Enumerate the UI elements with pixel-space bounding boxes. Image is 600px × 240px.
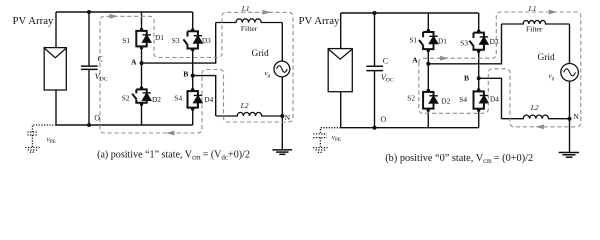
svg-text:A: A — [412, 56, 418, 65]
svg-text:O: O — [381, 115, 387, 124]
svg-text:D4: D4 — [490, 95, 499, 104]
node DC+ junction (b) — [373, 11, 377, 15]
wire node A to filter column (a) — [142, 23, 216, 64]
wire bottom DC rail (b) — [341, 127, 479, 129]
svg-text:D4: D4 — [204, 95, 213, 104]
wire grid to node N (b) — [569, 81, 571, 119]
wire node B to filter column (a) — [193, 76, 216, 116]
node DC+ junction (a) — [87, 10, 91, 14]
wire S3 to node B (b) — [478, 50, 480, 79]
svg-text:D2: D2 — [152, 95, 161, 104]
switch S3 open (a) — [183, 31, 198, 48]
svg-text:S1: S1 — [410, 35, 418, 44]
wire PV negative lead (b) — [340, 92, 342, 128]
svg-text:(b) positive “0” state, Vcm =: (b) positive “0” state, Vcm = (0+0)/2 — [385, 153, 533, 165]
node S2 source junction (b) — [427, 108, 430, 111]
diode D1 (b) — [429, 36, 437, 43]
svg-text:L1: L1 — [241, 4, 250, 13]
wire S2 to bottom rail (b) — [427, 109, 429, 128]
svg-text:VDC: VDC — [381, 73, 394, 84]
node S3 drain junction (a) — [191, 28, 194, 31]
svg-text:S3: S3 — [172, 36, 180, 45]
wire S2 to bottom rail (a) — [141, 103, 143, 125]
diode D3 (b) — [480, 37, 488, 44]
current arrow above L1 (a) — [263, 10, 272, 15]
node S1 drain junction (a) — [140, 28, 143, 31]
svg-text:PV Array: PV Array — [299, 15, 340, 27]
svg-text:VDC: VDC — [95, 72, 108, 83]
wire S1 to node A (a) — [141, 46, 143, 63]
switch S1 open (b) — [419, 32, 434, 49]
parasitic capacitor vPE dotted (b) — [313, 128, 341, 153]
switch S1 closed (a) — [136, 31, 146, 47]
inductor L1 (a) — [216, 19, 283, 23]
svg-text:S1: S1 — [122, 36, 130, 45]
ground symbol at N (a) — [272, 150, 292, 154]
svg-text:Grid: Grid — [252, 49, 269, 59]
wire L1 to grid (a) — [281, 23, 283, 62]
node S3 drain junction (b) — [477, 30, 480, 33]
node S2 drain junction (b) — [427, 89, 430, 92]
wire PV positive lead (a) — [55, 12, 57, 48]
switch S4 closed (a) — [188, 91, 198, 108]
node N (b) — [568, 117, 572, 121]
wire S4 to bottom rail (b) — [478, 109, 480, 128]
inductor L1 (b) — [502, 20, 570, 24]
svg-text:N: N — [573, 112, 579, 121]
svg-text:Filter: Filter — [241, 24, 258, 33]
diode D2 (a) — [143, 93, 151, 100]
diode D4 (b) — [480, 96, 488, 103]
PV array source (a) — [44, 48, 66, 90]
svg-text:vg: vg — [264, 70, 270, 80]
wire PV negative lead (a) — [55, 90, 57, 125]
diode D2 (b) — [429, 96, 437, 103]
svg-text:S3: S3 — [460, 38, 468, 47]
node B (a) — [191, 74, 195, 78]
current arrow above node A wire (b) — [440, 56, 449, 61]
wire node N to ground (b) — [569, 119, 571, 153]
wire PV positive lead (b) — [340, 13, 342, 49]
wire right leg top (a) — [192, 12, 194, 31]
switch S4 closed (b) — [474, 91, 484, 108]
node S2 drain junction (a) — [140, 86, 143, 89]
svg-text:(a) positive “1” state, Vcm =: (a) positive “1” state, Vcm = (Vdc+0)/2 — [97, 149, 250, 161]
current arrow top-left (a) — [110, 14, 119, 19]
node S4 source junction (b) — [477, 109, 480, 112]
node N (a) — [280, 114, 284, 118]
diode D1 (a) — [143, 35, 151, 42]
wire node B to filter column (b) — [479, 78, 502, 118]
switch S2 closed (b) — [423, 92, 433, 109]
node S4 source junction (a) — [191, 107, 194, 110]
wire bottom DC rail (a) — [56, 124, 193, 126]
wire node A to filter column (b) — [428, 24, 501, 64]
svg-text:D1: D1 — [438, 37, 447, 46]
svg-text:C: C — [383, 56, 388, 65]
AC source grid vg (b) — [561, 64, 579, 82]
node O junction (a) — [87, 123, 91, 127]
node O junction (b) — [373, 126, 377, 130]
wire right leg top (b) — [478, 13, 480, 33]
wire L1 to grid (b) — [569, 24, 571, 64]
capacitor C1 DC-link (a) — [81, 12, 98, 125]
node A (a) — [140, 61, 144, 65]
diode D4 (a) — [194, 95, 202, 102]
PV array source (b) — [328, 49, 352, 92]
wire top DC rail (a) — [56, 11, 193, 13]
capacitor C1 DC-link (b) — [366, 13, 383, 128]
svg-text:D3: D3 — [490, 37, 499, 46]
wire grid to node N (a) — [281, 77, 283, 116]
wire node A to S2 (a) — [141, 63, 143, 89]
svg-text:L2: L2 — [240, 101, 249, 110]
svg-text:PV Array: PV Array — [13, 15, 54, 27]
inductor L2 (b) — [502, 115, 570, 119]
node S3 source junction (b) — [477, 50, 480, 53]
svg-text:S2: S2 — [122, 94, 130, 103]
wire node A to S2 (b) — [427, 64, 429, 92]
wire node B to S4 (a) — [192, 76, 194, 92]
switch S2 open (a) — [132, 89, 147, 102]
svg-text:L1: L1 — [528, 4, 537, 13]
wire S3 to node B (a) — [192, 49, 194, 76]
node S2 source junction (a) — [140, 103, 143, 106]
svg-text:Grid: Grid — [538, 53, 555, 63]
wire top DC rail (b) — [341, 12, 479, 14]
node S4 drain junction (b) — [477, 88, 480, 91]
diode D3 (a) — [194, 36, 202, 43]
wire S4 to bottom rail (a) — [192, 108, 194, 125]
node S1 source junction (a) — [140, 46, 143, 49]
ground symbol at N (b) — [559, 153, 579, 158]
node S1 source junction (b) — [427, 49, 430, 52]
node A (b) — [426, 62, 430, 66]
AC source grid vg (a) — [274, 61, 290, 77]
wire left leg top (b) — [427, 13, 429, 32]
svg-text:vPE: vPE — [47, 135, 56, 145]
node S1 drain junction (b) — [427, 29, 430, 32]
wire left leg top (a) — [141, 12, 143, 31]
wire node N to ground (a) — [281, 116, 283, 150]
node B (b) — [477, 76, 481, 80]
svg-text:B: B — [183, 70, 188, 79]
svg-text:L2: L2 — [530, 103, 539, 112]
current arrow bottom return (a) — [166, 131, 175, 136]
svg-text:vPE: vPE — [332, 133, 341, 143]
svg-text:C: C — [98, 55, 103, 64]
svg-text:Filter: Filter — [526, 25, 543, 34]
node S3 source junction (a) — [191, 48, 194, 51]
current arrow bottom return (b) — [536, 124, 545, 129]
inductor L2 (a) — [216, 112, 283, 116]
svg-text:S4: S4 — [459, 95, 467, 104]
node S4 drain junction (a) — [191, 88, 194, 91]
dashed commutation current loop (a) — [100, 12, 293, 133]
wire S1 to node A (b) — [427, 49, 429, 64]
svg-text:S2: S2 — [407, 94, 415, 103]
parasitic capacitor vPE dotted (a) — [25, 125, 56, 152]
dashed freewheeling current loop (b) — [419, 12, 581, 127]
current arrow above L1 (b) — [549, 10, 558, 15]
wire node B to S4 (b) — [478, 78, 480, 91]
svg-text:O: O — [94, 113, 100, 122]
svg-text:A: A — [131, 57, 137, 66]
switch S3 open (b) — [469, 33, 484, 50]
svg-text:D3: D3 — [202, 36, 211, 45]
svg-text:D1: D1 — [155, 33, 164, 42]
svg-text:vg: vg — [549, 72, 555, 82]
svg-text:N: N — [285, 113, 291, 122]
svg-text:S4: S4 — [174, 93, 182, 102]
svg-text:D2: D2 — [441, 97, 450, 106]
svg-text:B: B — [464, 74, 469, 83]
